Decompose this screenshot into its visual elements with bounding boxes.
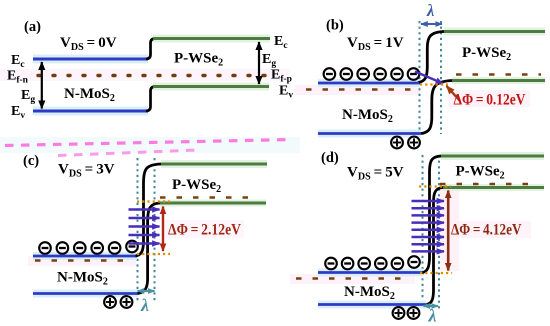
- hole pair (d): [393, 307, 420, 319]
- magenta dashed separator line row 1: [0, 137, 300, 153]
- svg-text:P-WSe2: P-WSe2: [172, 177, 221, 195]
- svg-text:N-MoS2: N-MoS2: [342, 107, 393, 125]
- conduction band bending curve (c): [136, 164, 162, 256]
- depletion width dotted line right (d): [438, 155, 440, 309]
- pink artifact band around dPhi text (c): [164, 220, 244, 238]
- dPhi double arrow (d): [447, 191, 450, 271]
- N-MoS2 valence band Ev line (b): [318, 132, 421, 135]
- depletion width dotted line right (b): [440, 21, 442, 134]
- halo of N-MoS2 valence band (a): [33, 107, 148, 116]
- P-WSe2 valence band Ev line (a): [153, 85, 269, 88]
- svg-text:Ev: Ev: [11, 104, 25, 121]
- Ef-n dashed line (c): [35, 259, 128, 261]
- Eg double arrow right (a): [258, 42, 260, 84]
- conduction band bending curve (b): [418, 32, 444, 83]
- halo of N-MoS2 conduction band (a): [33, 55, 148, 64]
- N-MoS2 conduction band Ec line (d): [318, 271, 423, 274]
- tunneling purple arrows (c): [129, 210, 160, 244]
- depletion width dotted line left (d): [422, 155, 424, 309]
- pink artifact band around dPhi arrow and text (d): [440, 189, 459, 271]
- pink artifact band around dPhi text (b): [448, 90, 530, 107]
- orange dotted alignment line (b): [420, 83, 448, 85]
- Ef-n dashed line (b): [306, 88, 411, 90]
- magenta dashed separator line row 2: [58, 150, 196, 156]
- svg-text:(a): (a): [24, 19, 41, 35]
- dPhi double arrow (c): [162, 207, 164, 252]
- orange dotted alignment line bottom (d): [420, 272, 452, 274]
- P-WSe2 conduction band Ec line (a): [153, 37, 270, 40]
- P-WSe2 conduction band Ec line (d): [441, 155, 544, 158]
- P-WSe2 valence band Ev line (d): [443, 186, 544, 189]
- dPhi pointer arrow (b): [447, 86, 461, 101]
- orange dotted alignment line top (c): [137, 200, 170, 202]
- svg-text:N-MoS2: N-MoS2: [64, 86, 115, 104]
- halo P-WSe2 valence band (d): [443, 184, 544, 191]
- N-MoS2 valence band Ev line (a): [33, 110, 148, 113]
- svg-text:VDS = 0V: VDS = 0V: [60, 35, 117, 53]
- pink artifact band around Fermi dots (a): [0, 69, 290, 81]
- depletion width dotted line right (c): [154, 158, 156, 302]
- pink artifact band around Ef-n dashes (d): [290, 274, 415, 284]
- hole pair (b): [391, 137, 420, 149]
- electron row (c): [39, 241, 138, 254]
- halo N-MoS2 valence band (d): [318, 301, 426, 309]
- svg-text:Eg: Eg: [262, 52, 276, 69]
- svg-text:Ev: Ev: [279, 84, 293, 101]
- Ef-p dashed line (b): [456, 73, 541, 75]
- electron flow purple arrow (b): [415, 72, 443, 84]
- svg-text:Eg: Eg: [21, 88, 35, 105]
- svg-text:N-MoS2: N-MoS2: [57, 270, 108, 288]
- svg-text:(c): (c): [23, 153, 39, 169]
- depletion width dotted line left (b): [419, 21, 421, 130]
- halo N-MoS2 valence band (c): [33, 290, 138, 298]
- hole pair (c): [104, 296, 132, 308]
- pink artifact band around Ef-n dashes (c): [28, 256, 136, 266]
- P-WSe2 conduction band Ec line (c): [161, 163, 267, 166]
- N-MoS2 valence band Ev line (c): [33, 292, 138, 295]
- N-MoS2 conduction band Ec line (b): [318, 82, 419, 85]
- svg-text:Ec: Ec: [11, 53, 25, 70]
- svg-text:λ: λ: [428, 306, 437, 326]
- pink artifact band around Ef-n dashes (b): [295, 85, 420, 95]
- conduction band step at junction (a): [146, 39, 155, 60]
- lambda double arrow (d): [424, 305, 439, 307]
- valence band bending curve (c): [138, 203, 161, 294]
- svg-text:Ec: Ec: [274, 34, 288, 51]
- halo P-WSe2 conduction band (c): [161, 160, 267, 168]
- halo P-WSe2 valence band (c): [160, 200, 266, 207]
- halo N-MoS2 conduction band (c): [33, 252, 137, 260]
- Ef-n dashed line (d): [296, 277, 411, 279]
- svg-text:ΔΦ = 2.12eV: ΔΦ = 2.12eV: [168, 221, 241, 239]
- P-WSe2 valence band Ev line (b): [452, 79, 545, 82]
- svg-text:ΔΦ = 4.12eV: ΔΦ = 4.12eV: [451, 221, 522, 239]
- Fermi level dotted line (a): [38, 74, 268, 77]
- svg-text:(d): (d): [321, 150, 339, 166]
- N-MoS2 conduction band Ec line (c): [33, 255, 137, 258]
- lambda double arrow (b): [421, 23, 442, 25]
- svg-text:VDS = 1V: VDS = 1V: [347, 35, 404, 53]
- Ef-p dashed line (c): [160, 196, 259, 198]
- halo N-MoS2 valence band (b): [318, 130, 421, 138]
- valence band bending curve (d): [427, 188, 444, 305]
- Ef-p dashed line (d): [440, 183, 532, 185]
- svg-text:N-MoS2: N-MoS2: [344, 284, 395, 302]
- N-MoS2 valence band Ev line (d): [318, 303, 426, 306]
- svg-text:λ: λ: [426, 1, 434, 20]
- P-WSe2 conduction band Ec line (b): [444, 30, 545, 33]
- P-WSe2 valence band Ev line (c): [160, 202, 266, 205]
- Eg double arrow left (a): [41, 62, 43, 109]
- orange dotted alignment line bottom (c): [137, 253, 170, 255]
- halo N-MoS2 conduction band (d): [318, 269, 423, 277]
- halo P-WSe2 conduction band (b): [444, 28, 545, 36]
- halo P-WSe2 conduction band (d): [441, 152, 544, 160]
- svg-text:P-WSe2: P-WSe2: [174, 51, 223, 69]
- tunneling purple arrows (d): [412, 201, 445, 251]
- valence band step at junction (a): [146, 87, 155, 112]
- N-MoS2 conduction band Ec line (a): [33, 58, 148, 61]
- valence band bending curve (b): [421, 81, 453, 134]
- halo P-WSe2 valence band (b): [452, 77, 545, 84]
- svg-text:ΔΦ = 0.12eV: ΔΦ = 0.12eV: [454, 90, 526, 108]
- conduction band bending curve (d): [423, 156, 442, 273]
- electron row (b): [324, 68, 420, 80]
- svg-text:P-WSe2: P-WSe2: [462, 45, 511, 63]
- svg-text:λ: λ: [140, 295, 149, 315]
- orange dotted alignment line top (d): [419, 185, 451, 187]
- halo N-MoS2 conduction band (b): [318, 79, 419, 87]
- electron row (d): [325, 256, 420, 269]
- depletion width dotted line left (c): [137, 158, 139, 302]
- halo of P-WSe2 valence band (a): [153, 83, 269, 91]
- halo of P-WSe2 conduction band (a): [153, 35, 270, 43]
- svg-text:VDS = 5V: VDS = 5V: [347, 165, 404, 183]
- svg-text:P-WSe2: P-WSe2: [456, 164, 505, 182]
- svg-text:(b): (b): [326, 18, 344, 34]
- lambda double arrow (c): [138, 290, 155, 292]
- svg-text:VDS = 3V: VDS = 3V: [58, 162, 115, 180]
